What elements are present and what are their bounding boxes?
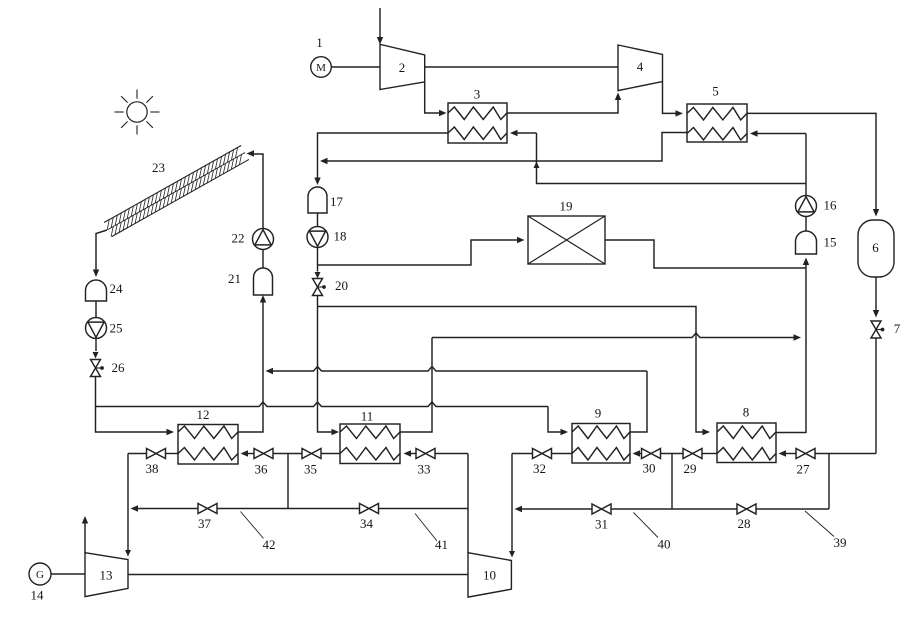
svg-text:32: 32 [533,461,546,476]
svg-text:23: 23 [152,160,165,175]
svg-text:39: 39 [834,535,847,550]
svg-text:33: 33 [418,462,431,477]
svg-text:16: 16 [824,198,838,213]
svg-text:6: 6 [872,240,879,255]
svg-text:42: 42 [263,537,276,552]
svg-text:20: 20 [335,278,348,293]
svg-text:41: 41 [435,537,448,552]
svg-text:G: G [36,569,44,581]
svg-text:3: 3 [474,87,481,102]
svg-text:19: 19 [560,199,573,214]
svg-text:4: 4 [637,59,644,74]
svg-text:17: 17 [330,194,344,209]
svg-text:37: 37 [198,516,212,531]
svg-text:1: 1 [316,35,323,50]
svg-text:13: 13 [100,568,113,583]
svg-text:26: 26 [112,360,126,375]
svg-text:M: M [316,62,326,74]
svg-text:11: 11 [361,409,374,424]
svg-text:38: 38 [146,461,159,476]
svg-text:27: 27 [797,462,811,477]
svg-text:31: 31 [595,517,608,532]
svg-text:24: 24 [110,281,124,296]
svg-text:28: 28 [738,516,751,531]
svg-text:40: 40 [658,537,671,552]
svg-text:14: 14 [31,588,45,603]
svg-text:10: 10 [483,568,496,583]
svg-text:34: 34 [360,516,374,531]
svg-text:2: 2 [399,60,406,75]
svg-text:9: 9 [595,406,602,421]
svg-text:35: 35 [304,462,317,477]
svg-text:18: 18 [334,229,347,244]
svg-text:7: 7 [894,321,901,336]
svg-text:15: 15 [824,235,837,250]
svg-text:12: 12 [197,407,210,422]
svg-text:5: 5 [712,84,719,99]
svg-text:29: 29 [684,461,697,476]
svg-text:21: 21 [228,271,241,286]
svg-text:25: 25 [110,321,123,336]
svg-text:8: 8 [743,405,750,420]
svg-text:30: 30 [643,461,656,476]
svg-text:22: 22 [232,231,245,246]
svg-text:36: 36 [255,462,269,477]
